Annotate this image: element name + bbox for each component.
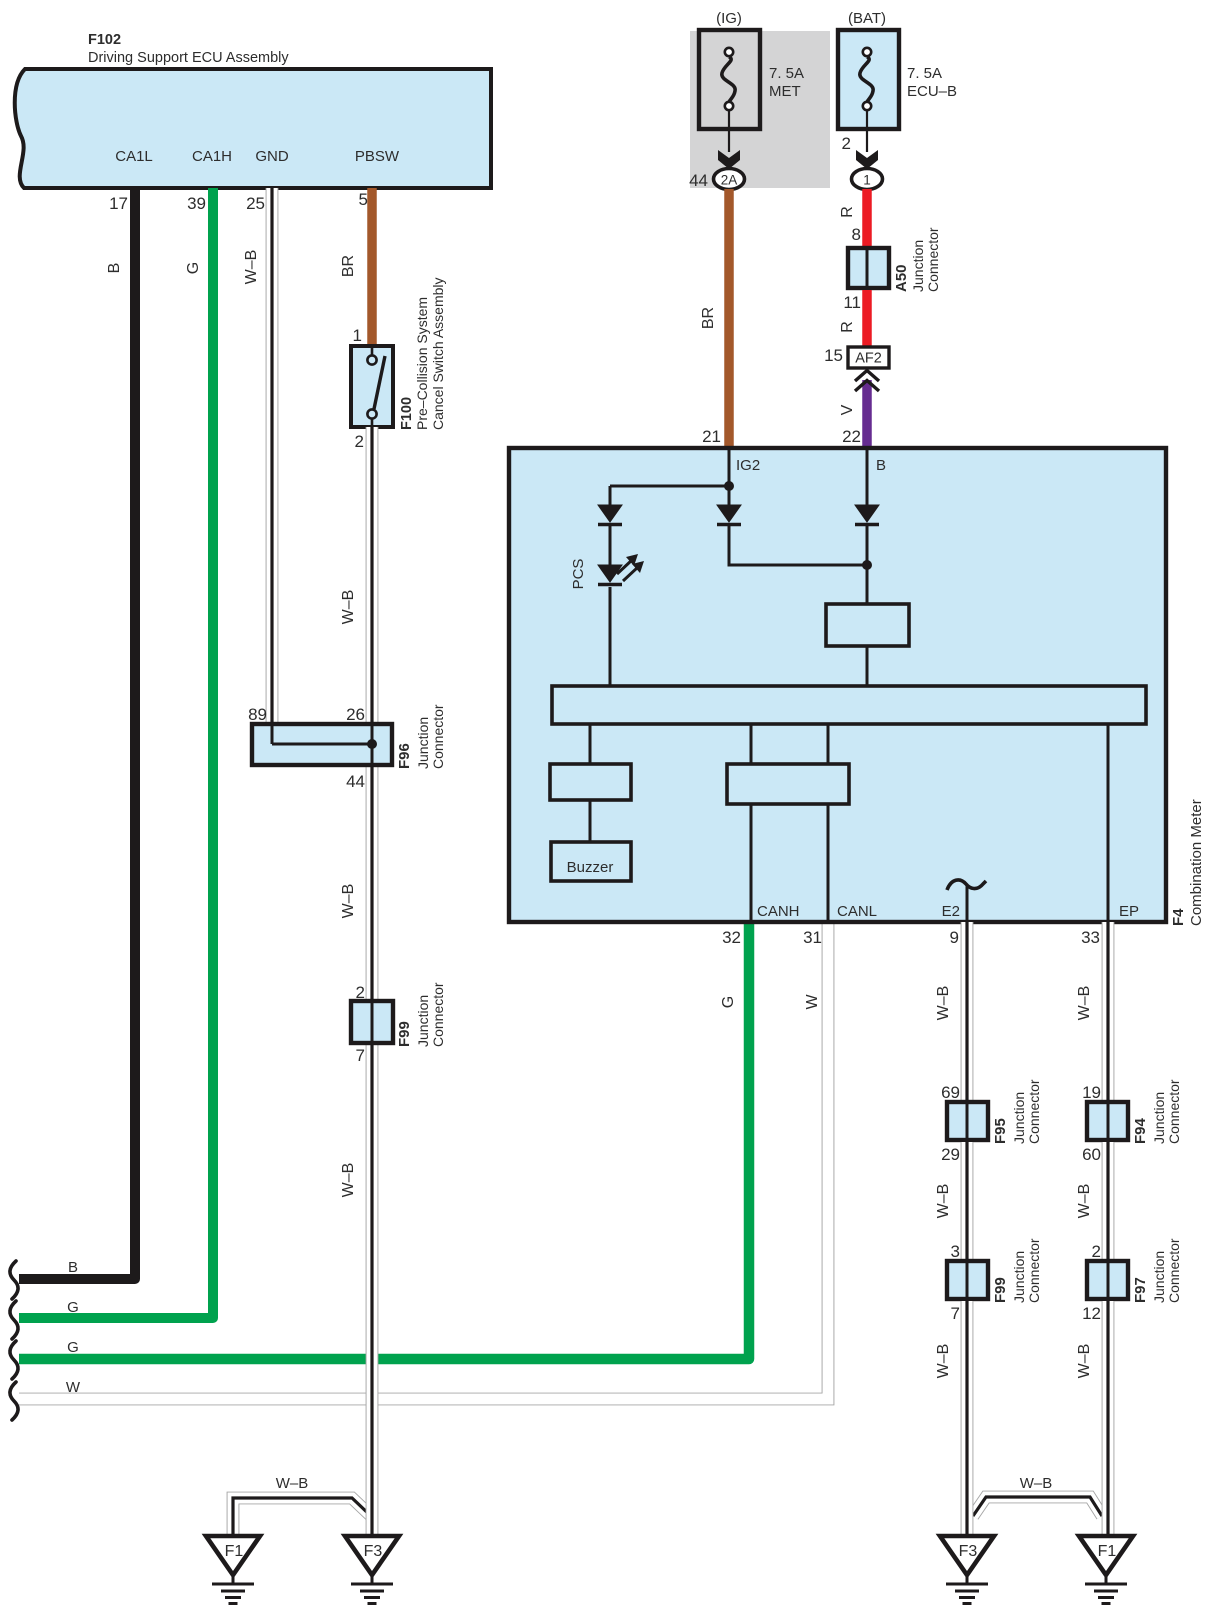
svg-text:Junction: Junction	[1011, 1092, 1027, 1144]
label (BAT)	[848, 10, 886, 27]
wire W-B F99 pin7 to ground F3 bottom-left	[366, 1041, 379, 1538]
wire CANL internal	[827, 804, 830, 922]
wire LED to bar	[609, 587, 612, 688]
wire label W-B EP seg3	[1076, 1344, 1093, 1379]
svg-text:7: 7	[356, 1046, 365, 1065]
svg-text:19: 19	[1082, 1083, 1101, 1102]
svg-text:G: G	[67, 1299, 79, 1316]
svg-text:Pre–Collision System: Pre–Collision System	[414, 297, 430, 430]
pin 3 label	[951, 1242, 960, 1261]
label PCS	[570, 559, 587, 590]
svg-text:60: 60	[1082, 1145, 1101, 1164]
wire label W-B GND vertical	[243, 250, 260, 285]
ground F1 bottom-right	[1079, 1536, 1133, 1604]
wire label W-B E2 seg3	[935, 1344, 952, 1379]
pin 9 label	[950, 928, 959, 947]
svg-text:11: 11	[843, 293, 861, 312]
svg-text:R: R	[839, 321, 856, 333]
bridge label W-B bottom-left	[276, 1475, 309, 1492]
wire label W-B E2 seg1	[935, 986, 952, 1021]
meter pin EP label	[1119, 903, 1139, 920]
svg-text:Buzzer: Buzzer	[567, 859, 614, 876]
wire label R upper	[839, 206, 856, 218]
wire W-B F94 to F97	[1102, 1142, 1115, 1263]
ECU pin PBSW label	[355, 148, 400, 165]
svg-text:MET: MET	[769, 83, 801, 100]
svg-text:Cancel Switch Assembly: Cancel Switch Assembly	[430, 277, 446, 430]
svg-text:E2: E2	[942, 903, 960, 920]
svg-text:Connector: Connector	[1166, 1238, 1182, 1303]
svg-text:W–B: W–B	[340, 1163, 357, 1198]
junction connector F95	[947, 1102, 988, 1140]
wire fuse IG to connector 2A	[728, 111, 730, 152]
break symbol 4	[10, 1382, 18, 1420]
svg-text:7. 5A: 7. 5A	[769, 65, 804, 82]
connector AF2	[848, 347, 889, 368]
fuse box BAT	[838, 30, 899, 129]
pin 17 label	[109, 194, 128, 213]
fuse box IG	[699, 30, 760, 129]
svg-text:21: 21	[702, 427, 721, 446]
svg-text:12: 12	[1082, 1304, 1101, 1323]
wire label R lower	[839, 321, 856, 333]
svg-text:29: 29	[941, 1145, 960, 1164]
svg-text:W–B: W–B	[340, 590, 357, 625]
svg-text:44: 44	[689, 171, 708, 190]
label B horizontal	[68, 1259, 78, 1276]
wire label BR vertical	[340, 255, 357, 277]
diode D1	[598, 505, 622, 525]
wire D2 to B branch	[729, 526, 867, 565]
ECU pin CA1H label	[192, 148, 232, 165]
pin 60 label	[1082, 1145, 1101, 1164]
svg-text:F99: F99	[396, 1021, 413, 1047]
svg-text:F94: F94	[1132, 1117, 1149, 1144]
wire B1 to buzzer	[589, 800, 592, 844]
junction connector F96	[252, 724, 392, 765]
svg-text:F96: F96	[396, 743, 413, 769]
pin 8 label	[852, 225, 861, 244]
svg-text:F4: F4	[1170, 908, 1187, 926]
wire D1 to LED	[609, 526, 612, 567]
svg-text:Connector: Connector	[430, 982, 446, 1047]
svg-text:G: G	[720, 996, 737, 1008]
pin 26 label F96	[346, 705, 365, 724]
block B1	[550, 764, 631, 800]
svg-text:IG2: IG2	[736, 457, 760, 474]
svg-text:32: 32	[722, 928, 741, 947]
svg-text:Junction: Junction	[1151, 1092, 1167, 1144]
wire fuse BAT to connector 1	[866, 111, 868, 152]
svg-text:Connector: Connector	[1026, 1079, 1042, 1144]
svg-text:Combination Meter: Combination Meter	[1188, 799, 1205, 926]
wire BR IG to meter pin21	[724, 189, 734, 450]
arrow into 1	[856, 150, 878, 169]
svg-text:Junction: Junction	[1151, 1251, 1167, 1303]
svg-text:R: R	[839, 206, 856, 218]
pin 1 label switch F100	[353, 326, 362, 345]
wire label W CANL	[804, 994, 821, 1010]
svg-text:A50: A50	[893, 264, 910, 292]
wire W-B F96 pin44 to F99 pin2	[366, 763, 379, 1003]
pin 15 label	[824, 346, 843, 365]
pin 12 label	[1082, 1304, 1101, 1323]
svg-text:ECU–B: ECU–B	[907, 83, 957, 100]
wire label B vertical	[106, 263, 123, 274]
svg-text:Connector: Connector	[1166, 1079, 1182, 1144]
svg-text:69: 69	[941, 1083, 960, 1102]
wire label W-B EP seg2	[1076, 1184, 1093, 1219]
ground F1 bottom-left	[206, 1536, 260, 1604]
junction connector F97	[1087, 1261, 1128, 1299]
internal bus bar	[552, 686, 1146, 724]
svg-text:26: 26	[346, 705, 365, 724]
svg-text:5: 5	[359, 190, 368, 209]
svg-text:V: V	[839, 404, 856, 415]
svg-text:Junction: Junction	[415, 995, 431, 1047]
pin 39 label	[187, 194, 206, 213]
ECU F102 Driving Support ECU Assembly box	[15, 69, 491, 188]
meter pin CANH label	[757, 903, 800, 920]
wire internal horizontal to D1	[610, 486, 729, 507]
switch F100 Pre-Collision System Cancel Switch Assembly	[351, 346, 393, 427]
buzzer block	[551, 842, 631, 881]
wire CANH internal	[750, 804, 753, 922]
svg-text:F95: F95	[992, 1118, 1009, 1144]
svg-text:CA1H: CA1H	[192, 148, 232, 165]
svg-text:F1: F1	[225, 1543, 244, 1560]
wire W-B bridge bottom-right	[973, 1497, 1102, 1516]
svg-text:W–B: W–B	[935, 1184, 952, 1219]
svg-text:BR: BR	[340, 255, 357, 277]
fuse label 7.5A ECU-B	[907, 65, 957, 100]
wire resistor to bar	[866, 646, 869, 688]
svg-text:2A: 2A	[721, 173, 738, 188]
svg-text:B: B	[68, 1259, 78, 1276]
svg-text:W–B: W–B	[243, 250, 260, 285]
CAN block B2	[727, 764, 849, 804]
F4 labels	[1170, 799, 1205, 926]
pin 44 label	[689, 171, 708, 190]
svg-text:25: 25	[246, 194, 265, 213]
junction dot IG2	[724, 481, 734, 491]
svg-text:2: 2	[355, 432, 364, 451]
pin 89 label F96	[248, 705, 267, 724]
wire W-B switch pin2 to F96 pin26	[366, 427, 379, 726]
ground F3 bottom-right	[940, 1536, 994, 1604]
F95 labels	[992, 1079, 1042, 1144]
wire R oval1 to A50 pin8	[862, 189, 872, 250]
svg-text:39: 39	[187, 194, 206, 213]
pin 5 label	[359, 190, 368, 209]
connector oval 1	[852, 169, 883, 190]
svg-text:B: B	[876, 457, 886, 474]
svg-text:2: 2	[356, 983, 365, 1002]
wire label V	[839, 404, 856, 415]
wire W-B F95 to F99 right	[961, 1142, 974, 1263]
pin 69 label	[941, 1083, 960, 1102]
meter pin B label	[876, 457, 886, 474]
arrow into 2A	[718, 150, 740, 169]
pin 19 label	[1082, 1083, 1101, 1102]
svg-text:Junction: Junction	[910, 240, 926, 292]
svg-text:PBSW: PBSW	[355, 148, 400, 165]
wire D3 down	[866, 526, 869, 606]
svg-text:9: 9	[950, 928, 959, 947]
junction connector F99 left	[351, 1001, 393, 1043]
pin 25 label	[246, 194, 265, 213]
pin 2 label F97	[1092, 1242, 1101, 1261]
pin 21 label	[702, 427, 721, 446]
svg-text:BR: BR	[700, 307, 717, 329]
junction connector F94	[1087, 1102, 1128, 1140]
diode D3	[855, 505, 879, 525]
wire BR PBSW pin5 to switch F100	[367, 188, 377, 348]
A50 labels	[893, 227, 941, 292]
svg-text:Connector: Connector	[1026, 1238, 1042, 1303]
wire label BR	[700, 307, 717, 329]
F99 right labels	[992, 1238, 1042, 1303]
svg-text:(IG): (IG)	[716, 10, 742, 27]
F99 left labels	[396, 982, 446, 1047]
LED PCS	[598, 554, 644, 585]
wire W-B F97 to ground F1	[1102, 1301, 1115, 1538]
junction connector F99 right	[947, 1261, 988, 1299]
svg-text:F102: F102	[88, 32, 121, 48]
svg-text:7: 7	[951, 1304, 960, 1323]
svg-text:W–B: W–B	[276, 1475, 309, 1492]
combination meter F4 box	[509, 448, 1166, 922]
pin 2 label switch F100	[355, 432, 364, 451]
wire W-B bridge bottom-left	[233, 1498, 372, 1538]
wire bar to block B1	[589, 724, 592, 766]
fuse label 7.5A MET	[769, 65, 804, 100]
svg-text:2: 2	[842, 134, 851, 153]
wire EP internal	[1107, 724, 1110, 922]
pin 2 label BAT	[842, 134, 851, 153]
svg-text:F99: F99	[992, 1277, 1009, 1303]
svg-text:W–B: W–B	[1076, 1344, 1093, 1379]
label G horizontal 1	[67, 1299, 79, 1316]
svg-text:PCS: PCS	[570, 559, 587, 590]
pin 33 label	[1081, 928, 1100, 947]
meter pin E2 label	[942, 903, 960, 920]
svg-text:W–B: W–B	[340, 884, 357, 919]
IG circuit gray background	[690, 31, 830, 188]
pin 22 label	[842, 427, 861, 446]
svg-text:G: G	[185, 262, 202, 274]
wire R A50 pin11 to AF2	[862, 290, 872, 349]
pin 7 label F99 right	[951, 1304, 960, 1323]
label W horizontal	[66, 1379, 81, 1396]
svg-text:W–B: W–B	[1076, 1184, 1093, 1219]
F102 label	[88, 32, 289, 66]
svg-text:15: 15	[824, 346, 843, 365]
svg-text:EP: EP	[1119, 903, 1139, 920]
wire bar to CAN block left	[750, 724, 753, 766]
ECU pin CA1L label	[115, 148, 153, 165]
meter pin CANL label	[837, 903, 877, 920]
pin 31 label	[803, 928, 822, 947]
svg-text:F3: F3	[364, 1543, 383, 1560]
wire W-B EP pin33 to F94	[1102, 922, 1115, 1104]
ECU pin GND label	[255, 148, 289, 165]
svg-text:(BAT): (BAT)	[848, 10, 886, 27]
resistor block	[826, 604, 909, 646]
svg-text:44: 44	[346, 772, 365, 791]
wire G green CA1H pin39 to left break	[19, 188, 213, 1318]
wire W-B E2 pin9 to F95	[961, 922, 974, 1104]
svg-text:1: 1	[353, 326, 362, 345]
F97 labels	[1132, 1238, 1182, 1303]
diode D2	[717, 505, 741, 525]
svg-text:89: 89	[248, 705, 267, 724]
wire label G CANH	[720, 996, 737, 1008]
wire IG2 internal	[728, 448, 731, 507]
svg-text:W–B: W–B	[1076, 986, 1093, 1021]
pin 7 label F99 left	[356, 1046, 365, 1065]
svg-text:7. 5A: 7. 5A	[907, 65, 942, 82]
wire W-B GND pin25 to F96 pin89	[266, 188, 279, 726]
wire label W-B E2 seg2	[935, 1184, 952, 1219]
svg-text:B: B	[106, 263, 123, 274]
svg-text:Connector: Connector	[925, 227, 941, 292]
svg-text:31: 31	[803, 928, 822, 947]
meter pin IG2 label	[736, 457, 760, 474]
pin 32 label	[722, 928, 741, 947]
svg-text:Connector: Connector	[430, 704, 446, 769]
svg-text:8: 8	[852, 225, 861, 244]
svg-text:W–B: W–B	[1020, 1475, 1053, 1492]
wire B black CA1L pin17 to left break	[19, 188, 135, 1279]
bridge label W-B bottom-right	[1020, 1475, 1053, 1492]
svg-text:33: 33	[1081, 928, 1100, 947]
svg-text:W: W	[804, 994, 821, 1010]
wire label G vertical	[185, 262, 202, 274]
pin 44 label F96	[346, 772, 365, 791]
svg-text:2: 2	[1092, 1242, 1101, 1261]
F96 labels	[396, 704, 446, 769]
connector oval 2A	[714, 169, 745, 190]
svg-text:W–B: W–B	[935, 1344, 952, 1379]
label G horizontal 2	[67, 1339, 79, 1356]
wire W white CANL pin31 to left break	[19, 922, 828, 1399]
svg-text:3: 3	[951, 1242, 960, 1261]
svg-text:1: 1	[863, 173, 871, 188]
svg-text:22: 22	[842, 427, 861, 446]
svg-text:G: G	[67, 1339, 79, 1356]
E2 squiggle symbol	[947, 880, 986, 922]
wire G green CANH pin32 to left break	[19, 922, 749, 1359]
wire label W-B seg1	[340, 590, 357, 625]
junction dot B branch	[862, 560, 872, 570]
break symbol 2	[10, 1301, 18, 1339]
wire label W-B EP seg1	[1076, 986, 1093, 1021]
wire B internal	[866, 448, 869, 507]
break symbol 1	[10, 1261, 18, 1299]
pin 2 label F99 left	[356, 983, 365, 1002]
svg-text:AF2: AF2	[855, 351, 882, 367]
svg-text:W: W	[66, 1379, 81, 1396]
chevron arrows up	[855, 371, 879, 392]
svg-text:F100: F100	[399, 397, 415, 430]
svg-text:F1: F1	[1098, 1543, 1117, 1560]
svg-text:Driving Support ECU Assembly: Driving Support ECU Assembly	[88, 50, 289, 66]
label (IG)	[716, 10, 742, 27]
svg-text:CA1L: CA1L	[115, 148, 153, 165]
svg-text:F3: F3	[959, 1543, 978, 1560]
ground F3 bottom-left	[345, 1536, 399, 1604]
F100 labels	[399, 277, 446, 430]
wire label W-B seg2	[340, 884, 357, 919]
svg-text:Junction: Junction	[415, 717, 431, 769]
F94 labels	[1132, 1079, 1182, 1144]
wire label W-B seg3	[340, 1163, 357, 1198]
junction connector A50	[848, 248, 889, 288]
wire V AF2 to meter pin22	[862, 380, 872, 450]
svg-text:F97: F97	[1132, 1277, 1149, 1303]
svg-text:GND: GND	[255, 148, 289, 165]
wire W-B F99 right to ground F3	[961, 1301, 974, 1538]
wire bar to CAN block right	[827, 724, 830, 766]
svg-text:W–B: W–B	[935, 986, 952, 1021]
svg-text:17: 17	[109, 194, 128, 213]
break symbol 3	[10, 1341, 18, 1379]
pin 29 label	[941, 1145, 960, 1164]
pin 11 label	[843, 293, 861, 312]
svg-text:CANH: CANH	[757, 903, 800, 920]
svg-text:Junction: Junction	[1011, 1251, 1027, 1303]
svg-text:CANL: CANL	[837, 903, 877, 920]
